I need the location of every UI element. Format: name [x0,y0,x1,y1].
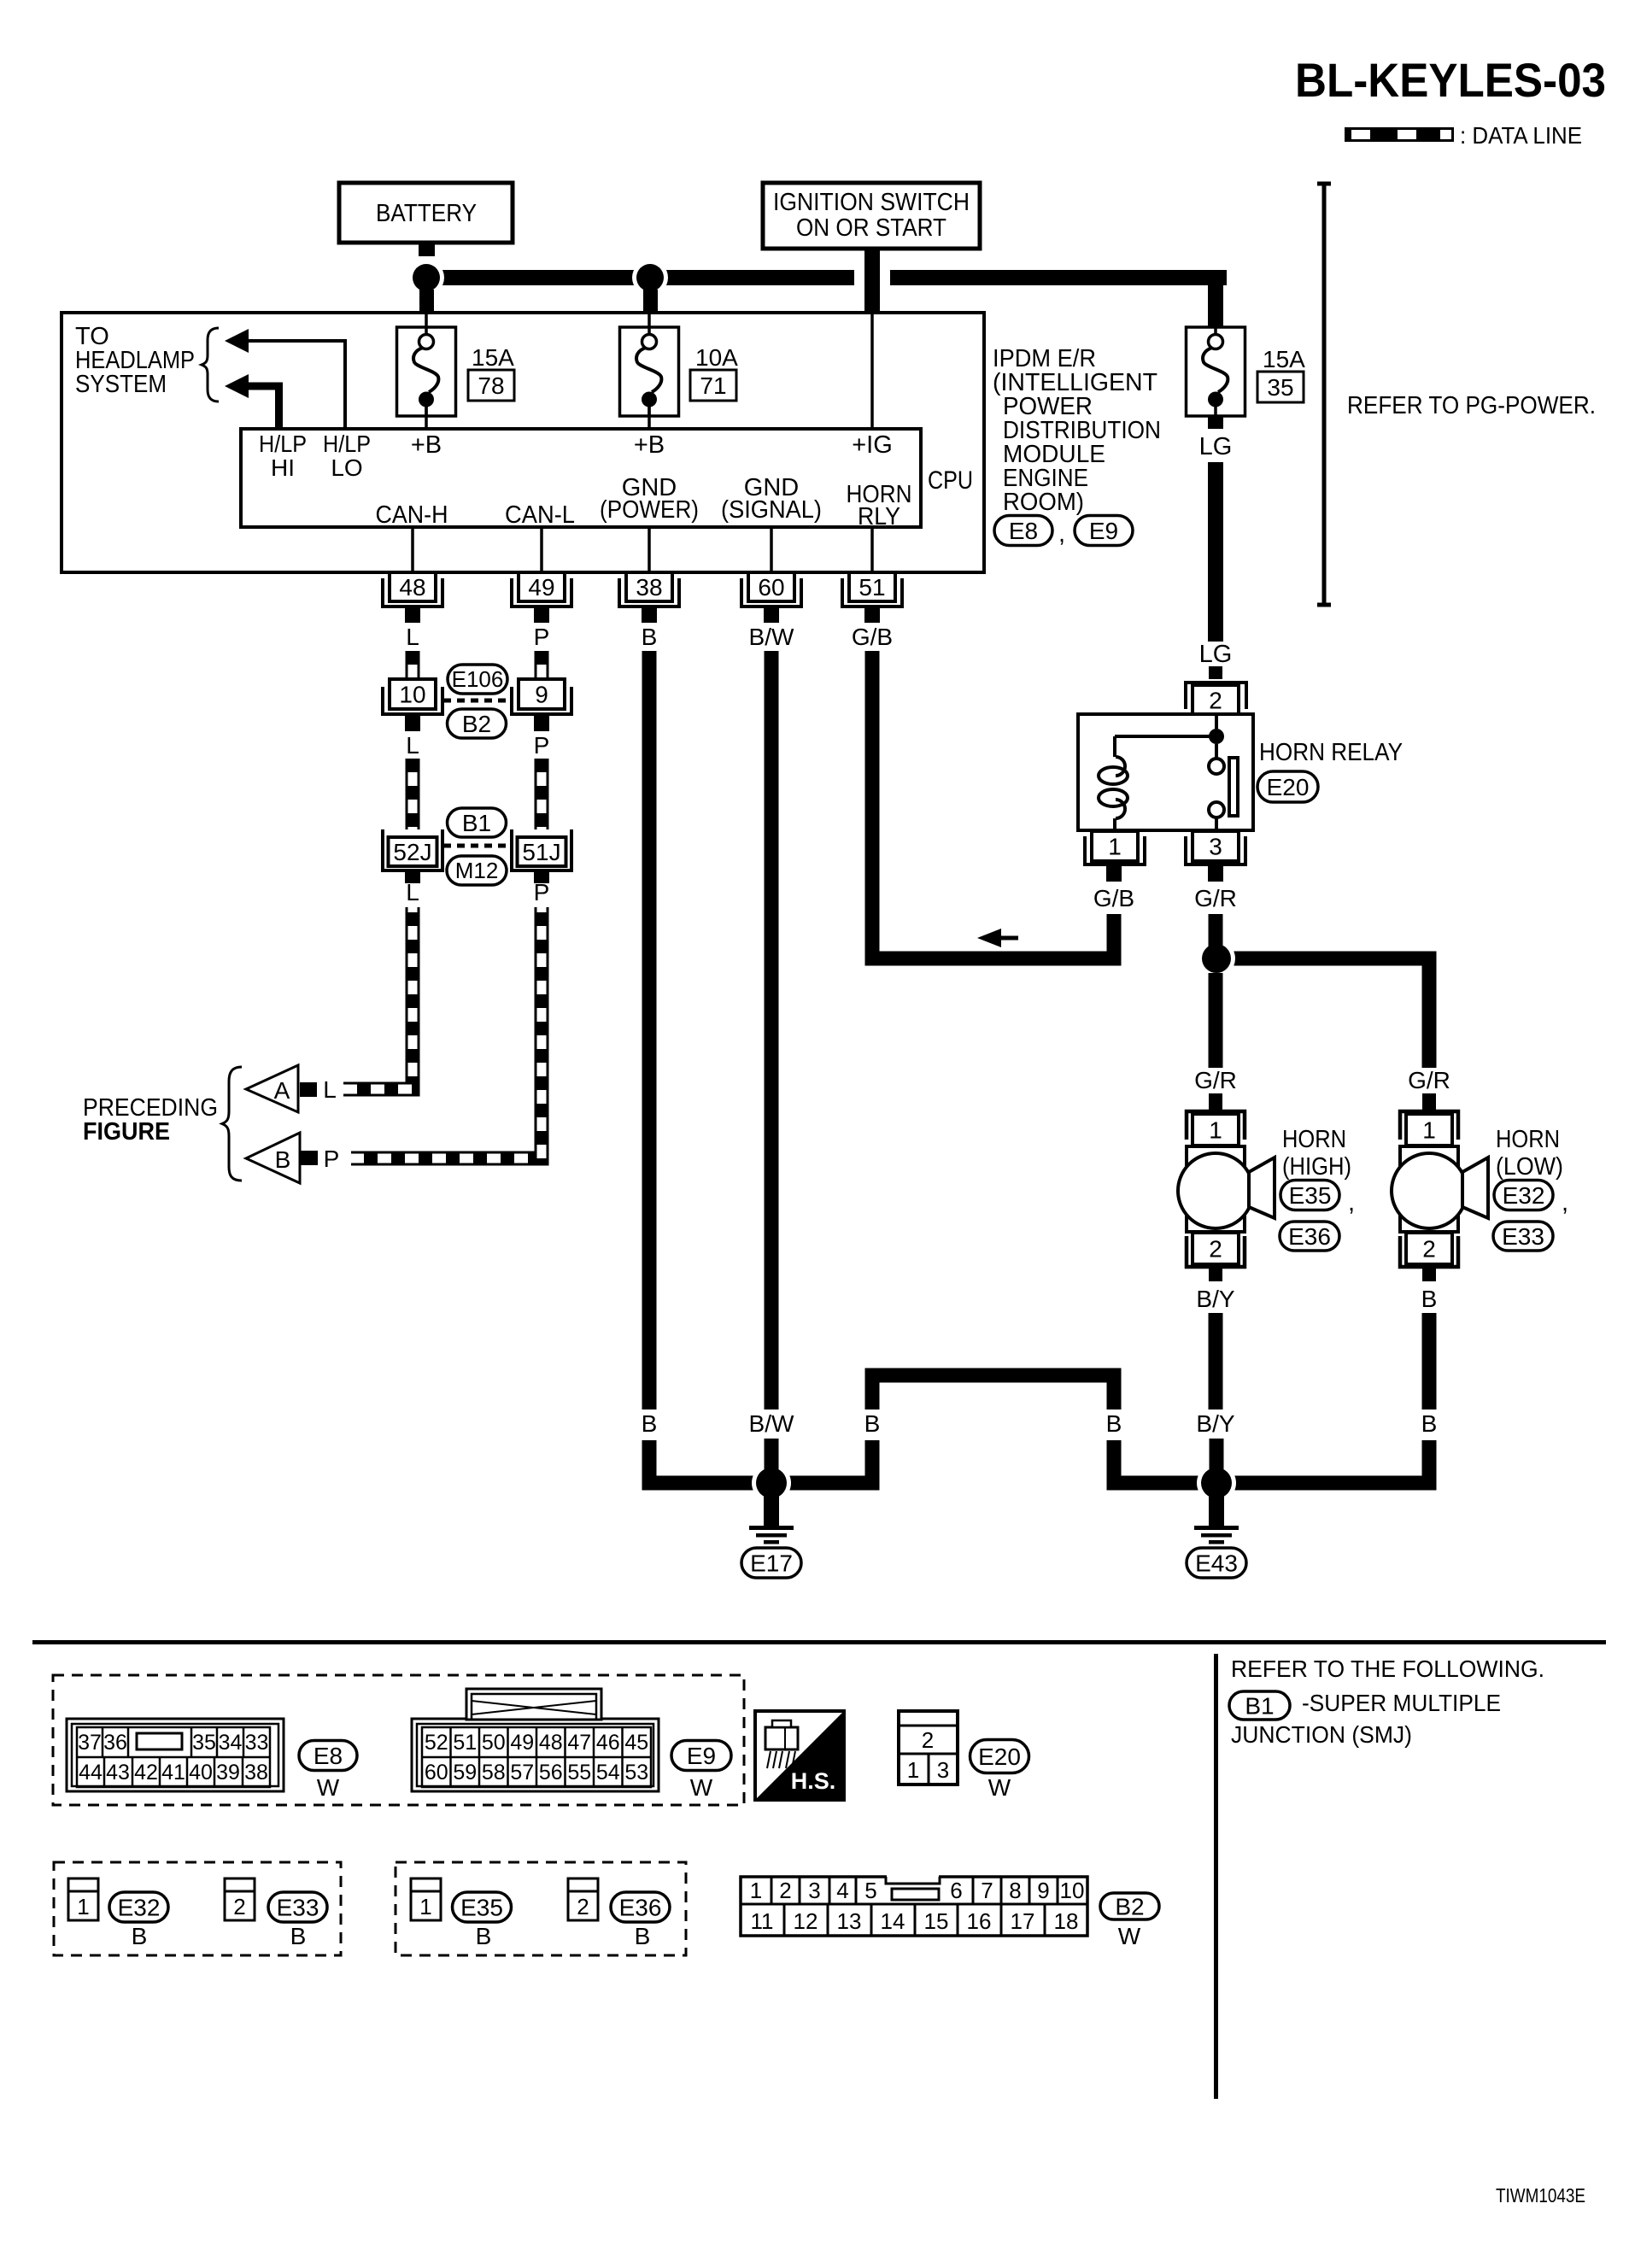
svg-text:51: 51 [453,1731,477,1755]
svg-text:SYSTEM: SYSTEM [75,371,167,398]
svg-text:35: 35 [1267,374,1293,401]
svg-text:CAN-L: CAN-L [505,501,575,529]
svg-text:LG: LG [1199,641,1233,668]
svg-text:37: 37 [78,1731,102,1755]
svg-text:E8: E8 [1009,518,1038,544]
svg-text:10: 10 [1060,1878,1085,1903]
svg-text:BL-KEYLES-03: BL-KEYLES-03 [1295,53,1606,107]
svg-text:HORN: HORN [1496,1126,1560,1153]
svg-text:E33: E33 [277,1894,319,1920]
svg-text:H/LP: H/LP [323,431,371,457]
svg-text:P: P [534,732,550,759]
svg-text:G/R: G/R [1408,1067,1450,1093]
svg-text:B: B [290,1923,307,1949]
svg-text:P: P [534,879,550,905]
svg-text:(HIGH): (HIGH) [1282,1153,1351,1181]
svg-text:E35: E35 [1289,1182,1332,1209]
svg-text:2: 2 [779,1878,791,1903]
svg-text:38: 38 [636,574,662,601]
svg-text:W: W [317,1774,340,1801]
svg-text:58: 58 [482,1761,506,1785]
svg-text:M12: M12 [455,858,499,883]
svg-text:B: B [1106,1410,1122,1437]
svg-text:49: 49 [510,1731,534,1755]
svg-text:2: 2 [1422,1235,1436,1262]
svg-text:2: 2 [577,1894,589,1919]
svg-text:36: 36 [103,1731,127,1755]
svg-text:,: , [1348,1189,1355,1216]
svg-text:3: 3 [1209,833,1222,859]
svg-text:54: 54 [596,1761,620,1785]
svg-text:42: 42 [134,1761,158,1785]
svg-text:P: P [534,624,550,650]
svg-text:B: B [642,1410,658,1437]
svg-text:15A: 15A [472,344,514,371]
svg-text:B: B [642,624,658,650]
svg-text:59: 59 [453,1761,477,1785]
svg-text:1: 1 [1422,1116,1436,1143]
svg-text:35: 35 [192,1731,216,1755]
svg-text:47: 47 [567,1731,591,1755]
svg-text:56: 56 [539,1761,563,1785]
svg-text:B/W: B/W [749,1410,794,1437]
svg-text:W: W [988,1774,1011,1801]
svg-text:2: 2 [1209,687,1222,713]
svg-text:39: 39 [216,1761,240,1785]
svg-text:B: B [275,1146,291,1173]
svg-text:11: 11 [751,1908,774,1934]
svg-text:52J: 52J [393,839,431,865]
svg-text:16: 16 [967,1908,992,1934]
svg-text:B: B [132,1923,148,1949]
svg-text:43: 43 [106,1761,130,1785]
svg-text:1: 1 [419,1894,431,1919]
svg-text:L: L [406,732,419,759]
svg-text:E36: E36 [1288,1223,1331,1250]
svg-text:HORN RELAY: HORN RELAY [1259,739,1403,766]
svg-text:CPU: CPU [928,466,973,495]
svg-text:RLY: RLY [858,503,900,530]
svg-text:B1: B1 [462,810,491,836]
svg-text:G/R: G/R [1194,1067,1237,1093]
svg-text:L: L [406,879,419,905]
svg-text:B/Y: B/Y [1196,1410,1234,1437]
svg-text:P: P [324,1146,340,1172]
svg-text:L: L [323,1076,337,1103]
svg-text:B2: B2 [1115,1893,1144,1919]
svg-text:3: 3 [937,1757,949,1783]
svg-text:E9: E9 [687,1743,716,1769]
svg-text:B: B [1421,1286,1438,1312]
svg-text:15: 15 [924,1908,949,1934]
svg-text:2: 2 [233,1894,245,1919]
svg-text:57: 57 [510,1761,534,1785]
svg-text:-SUPER MULTIPLE: -SUPER MULTIPLE [1302,1690,1501,1716]
svg-text:E43: E43 [1195,1550,1238,1576]
svg-text:3: 3 [808,1878,820,1903]
svg-text:10: 10 [399,681,425,707]
svg-text:48: 48 [539,1731,563,1755]
svg-text:REFER TO PG-POWER.: REFER TO PG-POWER. [1347,392,1596,419]
svg-text:(LOW): (LOW) [1496,1153,1563,1181]
svg-text:HI: HI [271,454,295,481]
svg-text:E9: E9 [1089,518,1118,544]
svg-text:40: 40 [189,1761,213,1785]
svg-text:+B: +B [634,431,665,459]
svg-text:E106: E106 [452,666,504,692]
svg-text:46: 46 [596,1731,620,1755]
svg-text:H/LP: H/LP [259,431,307,457]
svg-text:: DATA LINE: : DATA LINE [1460,122,1582,149]
svg-text:7: 7 [981,1878,993,1903]
svg-text:E32: E32 [118,1894,161,1920]
svg-text:B: B [864,1410,881,1437]
svg-text:2: 2 [1209,1235,1222,1262]
svg-text:LG: LG [1199,433,1233,460]
svg-text:15A: 15A [1263,346,1305,372]
svg-text:G/R: G/R [1194,885,1237,911]
svg-text:CAN-H: CAN-H [376,501,448,529]
svg-text:G/B: G/B [1093,885,1134,911]
svg-text:51: 51 [859,574,885,601]
svg-text:HORN: HORN [1282,1126,1346,1153]
svg-text:78: 78 [478,372,504,399]
svg-text:E20: E20 [1267,774,1310,800]
svg-text:B: B [635,1923,651,1949]
svg-text:6: 6 [950,1878,962,1903]
svg-text:50: 50 [482,1731,506,1755]
svg-text:4: 4 [836,1878,848,1903]
svg-text:1: 1 [1209,1116,1222,1143]
svg-text:,: , [1562,1189,1568,1216]
svg-text:TIWM1043E: TIWM1043E [1496,2184,1585,2206]
svg-text:B: B [1421,1410,1438,1437]
svg-text:17: 17 [1011,1908,1035,1934]
svg-text:BATTERY: BATTERY [376,200,477,227]
svg-text:45: 45 [624,1731,648,1755]
svg-text:FIGURE: FIGURE [83,1118,170,1146]
svg-text:E17: E17 [750,1550,793,1576]
svg-text:12: 12 [794,1908,818,1934]
svg-text:JUNCTION (SMJ): JUNCTION (SMJ) [1231,1721,1412,1748]
svg-text:2: 2 [922,1727,934,1753]
svg-text:49: 49 [528,574,554,601]
svg-text:L: L [406,624,419,650]
svg-text:(SIGNAL): (SIGNAL) [721,496,822,524]
svg-text:55: 55 [567,1761,591,1785]
svg-text:B2: B2 [462,711,491,737]
svg-text:A: A [274,1077,290,1104]
svg-text:51J: 51J [522,839,560,865]
svg-text:1: 1 [907,1757,919,1783]
svg-text:8: 8 [1009,1878,1021,1903]
svg-text:E35: E35 [460,1894,503,1920]
svg-text:44: 44 [79,1761,103,1785]
svg-text:18: 18 [1054,1908,1079,1934]
svg-text:60: 60 [425,1761,448,1785]
svg-text:71: 71 [700,372,726,399]
svg-text:E33: E33 [1502,1223,1544,1250]
svg-text:1: 1 [77,1894,89,1919]
svg-text:53: 53 [624,1761,648,1785]
svg-text:IGNITION SWITCH: IGNITION SWITCH [773,189,970,216]
svg-text:G/B: G/B [852,624,893,650]
svg-text:E36: E36 [619,1894,662,1920]
svg-text:B/W: B/W [749,624,794,650]
svg-text:ON OR START: ON OR START [796,214,946,242]
svg-text:E32: E32 [1503,1182,1545,1209]
svg-text:+IG: +IG [852,431,893,459]
svg-text:34: 34 [219,1731,243,1755]
svg-text:9: 9 [1037,1878,1049,1903]
svg-text:14: 14 [881,1908,905,1934]
svg-text:W: W [1118,1923,1141,1949]
svg-text:9: 9 [535,681,548,707]
svg-text:10A: 10A [695,344,738,371]
svg-text:13: 13 [837,1908,862,1934]
svg-text:1: 1 [750,1878,762,1903]
svg-text:5: 5 [864,1878,876,1903]
svg-text:E8: E8 [314,1743,343,1769]
svg-text:B1: B1 [1245,1692,1274,1719]
svg-text:38: 38 [244,1761,268,1785]
svg-text:48: 48 [399,574,425,601]
svg-text:(POWER): (POWER) [600,496,699,524]
svg-text:60: 60 [758,574,784,601]
svg-text:1: 1 [1108,833,1122,859]
svg-text:33: 33 [245,1731,269,1755]
svg-text:+B: +B [411,431,442,459]
svg-text:41: 41 [161,1761,185,1785]
svg-text:,: , [1058,520,1065,548]
svg-text:W: W [690,1774,713,1801]
svg-text:LO: LO [331,454,362,481]
svg-text:E20: E20 [978,1743,1021,1770]
svg-text:REFER TO THE FOLLOWING.: REFER TO THE FOLLOWING. [1231,1656,1544,1682]
svg-text:B: B [476,1923,492,1949]
svg-text:H.S.: H.S. [791,1768,836,1794]
svg-text:B/Y: B/Y [1196,1286,1234,1312]
svg-text:52: 52 [425,1731,448,1755]
svg-text:ROOM): ROOM) [1003,489,1084,516]
